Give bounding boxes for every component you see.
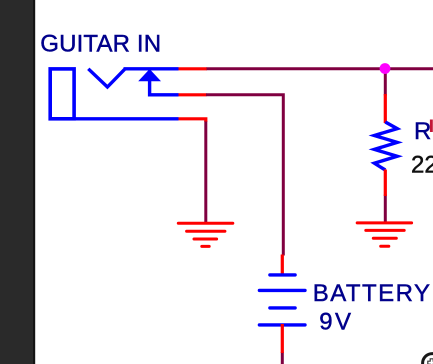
battery BT1 plate 4 (long): [259, 323, 305, 326]
ground GND2 (right): [357, 223, 411, 246]
jack J1 body rectangle: [50, 69, 74, 119]
dark sidebar strip: [0, 0, 35, 364]
svg-text:R: R: [414, 118, 431, 145]
jack J1 pin 2 (ring, red): [179, 93, 207, 96]
wire ring net: jack to battery: [206, 95, 283, 256]
battery BT1 plate 3 (short): [270, 306, 295, 309]
jack J1 pin 1 (tip, red): [179, 67, 208, 70]
node junction dot: [380, 63, 391, 74]
jack J1 sleeve line: [49, 117, 179, 120]
resistor R1 bottom pin (red): [384, 170, 387, 197]
resistor R1 top pin (red): [384, 94, 387, 123]
svg-text:9V: 9V: [319, 308, 353, 335]
wire sleeve net: jack to ground: [204, 122, 207, 223]
jack J1 arrow stem: [150, 80, 179, 95]
jack J1 tip line: [124, 67, 179, 70]
battery BT1 plate 1 (short): [270, 273, 295, 276]
resistor R1 zigzag: [374, 122, 397, 170]
zoom-plus icon bottom right corner: [423, 354, 433, 364]
svg-text:GUITAR IN: GUITAR IN: [40, 31, 161, 58]
ground GND1 (middle): [178, 223, 233, 246]
battery BT1 bottom pin (red): [281, 324, 284, 353]
wire battery to bottom edge: [281, 352, 284, 364]
battery BT1 plate 2 (long): [259, 289, 305, 292]
svg-text:BATTERY: BATTERY: [313, 280, 432, 307]
jack J1 tip notch V: [88, 69, 125, 87]
wire tip net: jack to node to right edge: [207, 67, 433, 70]
battery BT1 top pin (red): [281, 255, 284, 277]
wire resistor to ground: [384, 195, 387, 223]
jack J1 pin 3 (sleeve, red): [179, 119, 206, 122]
jack J1 tip contact arrow: [138, 69, 161, 81]
wire node to resistor: [384, 69, 387, 96]
label R1 digit 1 (red, clipped at edge): [430, 120, 433, 133]
svg-text:220k: 220k: [411, 152, 433, 179]
